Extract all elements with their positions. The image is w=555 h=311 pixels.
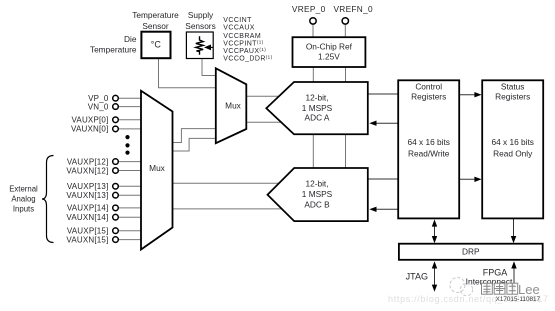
- svg-text:DRP: DRP: [462, 246, 480, 256]
- svg-text:Mux: Mux: [149, 163, 166, 173]
- svg-text:Read/Write: Read/Write: [408, 148, 450, 158]
- svg-text:VAUXN[13]: VAUXN[13]: [66, 191, 108, 200]
- svg-text:VAUXP[12]: VAUXP[12]: [67, 157, 109, 166]
- svg-text:ADC B: ADC B: [304, 200, 330, 210]
- svg-text:X17015-110817: X17015-110817: [496, 296, 541, 303]
- svg-text:VCCO_DDR(1): VCCO_DDR(1): [223, 55, 272, 63]
- svg-text:Sensor: Sensor: [142, 21, 169, 31]
- svg-text:Analog: Analog: [11, 195, 35, 204]
- svg-text:VAUXP[0]: VAUXP[0]: [71, 116, 108, 125]
- svg-text:Read Only: Read Only: [493, 148, 533, 158]
- svg-text:VREP_0: VREP_0: [292, 4, 326, 14]
- svg-text:VAUXN[12]: VAUXN[12]: [66, 166, 108, 175]
- svg-text:VCCPINT(1): VCCPINT(1): [223, 40, 263, 48]
- svg-text:°C: °C: [151, 40, 162, 50]
- svg-text:Temperature: Temperature: [90, 45, 137, 55]
- svg-text:Mux: Mux: [225, 100, 242, 110]
- svg-text:Control: Control: [415, 81, 442, 91]
- svg-text:VREFN_0: VREFN_0: [333, 4, 373, 14]
- svg-text:External: External: [9, 185, 38, 194]
- svg-text:VAUXN[0]: VAUXN[0]: [71, 125, 108, 134]
- svg-text:On-Chip Ref: On-Chip Ref: [306, 42, 353, 52]
- svg-text:Registers: Registers: [411, 92, 446, 102]
- svg-text:12-bit,: 12-bit,: [305, 179, 328, 189]
- svg-text:64 x 16 bits: 64 x 16 bits: [491, 137, 533, 147]
- svg-text:VAUXP[15]: VAUXP[15]: [67, 227, 109, 236]
- svg-text:Lee: Lee: [518, 282, 540, 297]
- svg-text:64 x 16 bits: 64 x 16 bits: [407, 137, 449, 147]
- svg-text:VCCPAUX(1): VCCPAUX(1): [223, 47, 266, 55]
- svg-text:1 MSPS: 1 MSPS: [302, 189, 333, 199]
- svg-text:12-bit,: 12-bit,: [305, 93, 328, 103]
- svg-text:1 MSPS: 1 MSPS: [302, 103, 333, 113]
- svg-text:VAUXN[14]: VAUXN[14]: [66, 213, 108, 222]
- svg-text:JTAG: JTAG: [406, 272, 428, 282]
- svg-text:VCCBRAM: VCCBRAM: [223, 33, 261, 40]
- svg-text:VAUXN[15]: VAUXN[15]: [66, 235, 108, 244]
- svg-text:VCCAUX: VCCAUX: [223, 25, 255, 32]
- svg-text:1.25V: 1.25V: [318, 51, 340, 61]
- svg-text:Sensors: Sensors: [185, 21, 215, 31]
- svg-text:VCCINT: VCCINT: [223, 17, 252, 24]
- svg-text:Die: Die: [124, 34, 137, 44]
- svg-text:Supply: Supply: [188, 10, 214, 20]
- svg-text:Inputs: Inputs: [13, 205, 34, 214]
- svg-text:ADC A: ADC A: [305, 112, 330, 122]
- svg-text:VAUXP[14]: VAUXP[14]: [67, 204, 109, 213]
- svg-text:VN_0: VN_0: [88, 102, 109, 111]
- svg-text:Registers: Registers: [495, 92, 530, 102]
- svg-text:Temperature: Temperature: [132, 10, 179, 20]
- svg-text:VAUXP[13]: VAUXP[13]: [67, 182, 109, 191]
- svg-text:Status: Status: [501, 81, 525, 91]
